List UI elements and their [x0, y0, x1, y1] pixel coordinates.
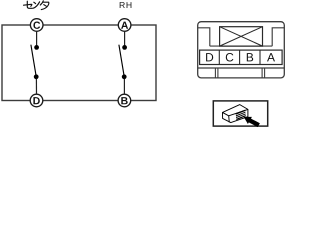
legend: arrow pointing at connector face	[244, 117, 260, 127]
connector: cell separator 2	[239, 50, 241, 64]
connector front view: outer housing	[198, 22, 285, 78]
switch body rectangle	[2, 25, 156, 101]
terminal A	[118, 19, 131, 32]
icon: front vertical edge	[228, 116, 231, 123]
view direction legend box	[213, 101, 267, 126]
connector: terminal row box	[200, 50, 283, 64]
connector: right clip channel	[261, 68, 263, 78]
connector: cell separator 1	[218, 50, 220, 64]
connector: pin label B	[247, 53, 253, 61]
connector: right inner ledge	[272, 28, 284, 46]
legend: terminal block (hatched)	[236, 110, 246, 121]
switch A-B: upper contact dot	[122, 45, 127, 50]
switch C-D: lower contact dot	[34, 74, 39, 79]
connector: lock box with X	[220, 27, 263, 46]
switch C-D: wire stub to D	[35, 79, 37, 94]
connector: pin label C	[226, 53, 234, 62]
connector: cell separator 3	[259, 50, 261, 64]
connector: cavity floor	[210, 45, 272, 47]
switch C-D: upper contact dot	[34, 45, 39, 50]
label センタ	[24, 1, 49, 10]
terminal D	[30, 94, 43, 107]
icon: top-face edge	[223, 109, 248, 115]
connector: pin label A	[267, 53, 275, 61]
label RH	[120, 2, 132, 8]
switch A-B: wire stub from A	[124, 31, 126, 45]
switch A-B: wire stub to B	[123, 79, 125, 94]
terminal B	[118, 94, 131, 107]
connector: left inner ledge	[198, 28, 210, 46]
connector: lower band line	[198, 67, 285, 69]
switch A-B: lower contact dot	[122, 74, 127, 79]
terminal C	[30, 19, 43, 32]
connector: pin label D	[206, 53, 213, 61]
switch C-D: blade (open)	[31, 45, 36, 77]
legend: 3d connector icon silhouette	[223, 105, 248, 123]
connector: left clip channel	[214, 68, 216, 78]
switch A-B: blade (open)	[119, 45, 124, 77]
switch C-D: wire stub from C	[36, 31, 38, 45]
